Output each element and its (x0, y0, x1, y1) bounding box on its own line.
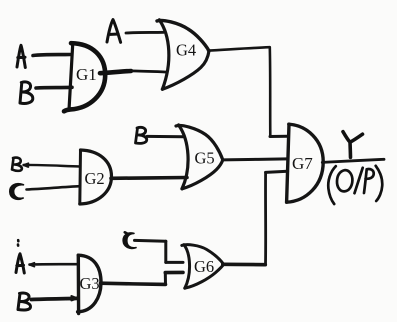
svg-text:G1: G1 (76, 65, 97, 84)
svg-text:G2: G2 (85, 169, 105, 188)
svg-text:G4: G4 (176, 41, 196, 60)
svg-text:G5: G5 (195, 148, 215, 167)
svg-text:G7: G7 (292, 154, 313, 173)
svg-text:G6: G6 (194, 257, 214, 276)
svg-text:G3: G3 (80, 274, 100, 293)
